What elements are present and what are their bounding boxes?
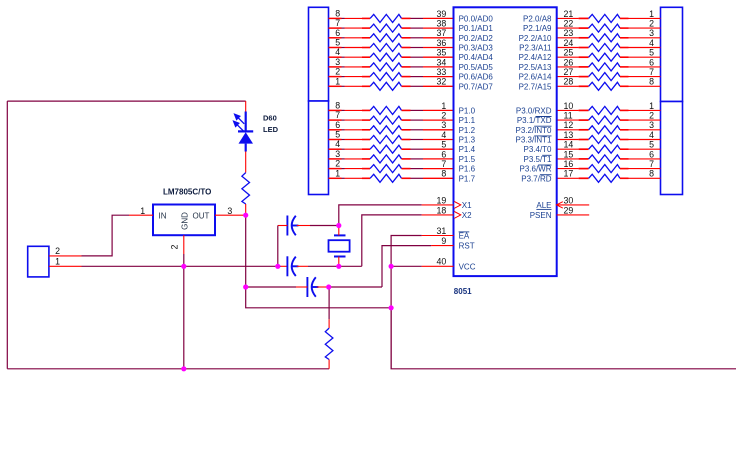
svg-text:16: 16 (564, 159, 574, 169)
svg-text:2: 2 (335, 159, 340, 169)
svg-text:3: 3 (441, 120, 446, 130)
wire 8051 pin 21 to resistor (P2.0 net) (557, 17, 579, 19)
svg-text:X1: X1 (462, 201, 472, 210)
junction node RST / C3 / reset resistor (326, 284, 331, 289)
wire connector pin 8 to resistor (P0.0 net) (329, 17, 342, 19)
resistor R P1.1 (370, 116, 401, 124)
junction node C1 ground junction (275, 264, 280, 269)
wire RST resistor column (328, 287, 330, 319)
svg-text:P2.5/A13: P2.5/A13 (519, 63, 552, 72)
wire resistor to 8051 pin 35 (402, 56, 411, 58)
svg-text:8: 8 (335, 8, 340, 18)
svg-text:15: 15 (564, 149, 574, 159)
wire 8051 pin 26 to resistor (P2.5 net) (557, 66, 579, 68)
junction node EA column x y308 wire (389, 305, 394, 310)
wire connector pin 6 to resistor (P1.2 net) (329, 129, 342, 131)
wire VCC pin stub (422, 265, 454, 267)
wire X2 pin stub (422, 214, 454, 216)
svg-text:8051: 8051 (454, 287, 472, 296)
wire GND column to bottom rail (183, 254, 185, 369)
wire resistor to right connector pin 3 (620, 129, 629, 131)
svg-text:VCC: VCC (459, 262, 476, 271)
resistor R P2.0 (589, 14, 620, 22)
wire connector pin 7 to resistor (P0.1 net) (329, 27, 342, 29)
svg-text:4: 4 (335, 139, 340, 149)
wire resistor to right connector pin 2 (620, 119, 629, 121)
wire 8051 pin 27 to resistor (P2.6 net) (557, 76, 579, 78)
overline over TXD (535, 116, 551, 118)
svg-text:RST: RST (459, 242, 475, 251)
svg-text:P3.2/INT0: P3.2/INT0 (515, 126, 552, 135)
svg-text:P2.4/A12: P2.4/A12 (519, 53, 552, 62)
resistor R P3.7 (589, 174, 620, 182)
wire resistor to right connector pin 4 (620, 47, 629, 49)
wire connector pin 4 to resistor (P0.4 net) (329, 56, 342, 58)
wire resistor to right connector pin 1 (620, 109, 629, 111)
svg-text:17: 17 (564, 169, 574, 179)
connector J5 (power input) (28, 246, 49, 277)
wire C2 right stub (297, 265, 308, 267)
svg-text:P3.3/INT1: P3.3/INT1 (515, 136, 552, 145)
wire regulator OUT pin to node (215, 214, 246, 216)
svg-text:2: 2 (441, 111, 446, 121)
wire C1 to crystal/X1 node (310, 225, 339, 227)
connector J2 (left middle, pins 8..1) (309, 101, 329, 195)
svg-text:P1.7: P1.7 (459, 174, 476, 183)
wire 8051 pin 23 to resistor (P2.2 net) (557, 37, 579, 39)
svg-text:24: 24 (564, 38, 574, 48)
wire ground net J5 to caps (82, 265, 282, 267)
svg-text:5: 5 (649, 140, 654, 150)
wire resistor to bottom rail (328, 360, 330, 369)
wire top rail to LED (245, 101, 247, 111)
svg-text:3: 3 (335, 149, 340, 159)
wire resistor to 8051 pin 4 (402, 139, 411, 141)
wire X2 net along ground row (308, 265, 362, 267)
underline under ALE / overline of PSEN group (536, 208, 551, 210)
svg-text:D60: D60 (263, 114, 277, 123)
wire 8051 pin 13 to resistor (P3.3 net) (557, 139, 579, 141)
wire resistor to right connector pin 5 (620, 148, 629, 150)
svg-text:P2.0/A8: P2.0/A8 (523, 14, 552, 23)
wire resistor to 8051 pin 8 (402, 177, 411, 179)
wire 8051 pin 16 to resistor (P3.6 net) (557, 168, 579, 170)
wire resistor to right connector pin 6 (620, 66, 629, 68)
wire RST net to corner (329, 286, 382, 288)
svg-text:P1.3: P1.3 (459, 136, 476, 145)
resistor R P1.0 (370, 106, 401, 114)
op-amp U1: 8051 microcontroller body (454, 7, 557, 276)
wire resistor to 8051 pin 33 (402, 76, 411, 78)
wire C1 left to ground wire (277, 226, 279, 267)
clock arrow pin X1 (454, 202, 461, 209)
svg-text:P1.0: P1.0 (459, 106, 476, 115)
wire 8051 pin 17 to resistor (P3.7 net) (557, 177, 579, 179)
wire resistor to 8051 pin 32 (402, 85, 411, 87)
junction node X2 / C2 / crystal bottom (336, 264, 341, 269)
wire resistor to right connector pin 8 (620, 85, 629, 87)
resistor R P3.4 (589, 145, 620, 153)
svg-text:3: 3 (335, 57, 340, 67)
resistor R P1.6 (370, 165, 401, 173)
wire connector pin 5 to resistor (P1.3 net) (329, 139, 342, 141)
svg-text:6: 6 (649, 57, 654, 67)
resistor R P1.3 (370, 136, 401, 144)
resistor R P2.3 (589, 44, 620, 52)
wire PSEN pin stub (557, 214, 590, 216)
svg-text:32: 32 (437, 77, 447, 87)
svg-text:GND: GND (180, 212, 189, 230)
svg-text:P1.2: P1.2 (459, 126, 476, 135)
svg-text:PSEN: PSEN (530, 211, 552, 220)
wire VCC column to y308 wire (246, 287, 391, 308)
wire C1 right stub (297, 225, 310, 227)
wire 8051 pin 10 to resistor (P3.0 net) (557, 109, 579, 111)
svg-text:21: 21 (564, 9, 574, 19)
resistor R P0.6 (370, 73, 401, 81)
svg-text:LM7805C/TO: LM7805C/TO (163, 188, 211, 197)
overline over T1 (542, 154, 551, 156)
resistor R P0.4 (370, 53, 401, 61)
junction node regulator OUT / LED / VCC column (243, 213, 248, 218)
svg-text:9: 9 (441, 236, 446, 246)
svg-text:1: 1 (649, 9, 654, 19)
wire RST net vertical and to pin (382, 246, 431, 287)
wire EA net vertical (391, 236, 422, 369)
resistor R P1.4 (370, 145, 401, 153)
wire 8051 pin 22 to resistor (P2.1 net) (557, 27, 579, 29)
svg-text:1: 1 (335, 168, 340, 178)
wire X1 pin stub (422, 204, 454, 206)
wire resistor to 8051 pin 34 (402, 66, 411, 68)
pin arrow ALE (557, 202, 563, 208)
svg-text:39: 39 (437, 9, 447, 19)
svg-text:34: 34 (437, 57, 447, 67)
wire resistor to 8051 pin 2 (402, 119, 411, 121)
svg-text:6: 6 (335, 120, 340, 130)
wire connector pin 4 to resistor (P1.4 net) (329, 148, 342, 150)
resistor R P3.3 (589, 136, 620, 144)
svg-text:7: 7 (649, 67, 654, 77)
svg-text:P2.1/A9: P2.1/A9 (523, 24, 552, 33)
svg-text:33: 33 (437, 67, 447, 77)
svg-text:P1.5: P1.5 (459, 155, 476, 164)
svg-text:8: 8 (649, 169, 654, 179)
resistor R P0.5 (370, 63, 401, 71)
resistor R P0.1 (370, 24, 401, 32)
wire connector pin 8 to resistor (P1.0 net) (329, 109, 342, 111)
wire VCC pin net (391, 265, 422, 267)
wire resistor to 8051 pin 3 (402, 129, 411, 131)
wire EA pin stub (422, 235, 454, 237)
wire 8051 pin 15 to resistor (P3.5 net) (557, 158, 579, 160)
LED light arrows (234, 114, 245, 131)
svg-text:P1.1: P1.1 (459, 116, 476, 125)
wire resistor to right connector pin 4 (620, 139, 629, 141)
wire connector pin 2 to resistor (P1.6 net) (329, 168, 342, 170)
resistor R P2.5 (589, 63, 620, 71)
wire 8051 pin 24 to resistor (P2.3 net) (557, 47, 579, 49)
svg-text:3: 3 (649, 120, 654, 130)
svg-text:P1.4: P1.4 (459, 145, 476, 154)
svg-text:25: 25 (564, 48, 574, 58)
wire connector pin 3 to resistor (P0.5 net) (329, 66, 342, 68)
svg-text:1: 1 (335, 76, 340, 86)
capacitor C3 (reset cap) (306, 277, 308, 297)
wire VCC column to C3 (246, 286, 296, 288)
overline over INT1 (534, 135, 551, 137)
svg-text:P3.0/RXD: P3.0/RXD (516, 106, 552, 115)
wire 8051 pin 14 to resistor (P3.4 net) (557, 148, 579, 150)
wire resistor to right connector pin 2 (620, 27, 629, 29)
svg-text:LED: LED (263, 125, 279, 134)
svg-text:31: 31 (437, 226, 447, 236)
svg-text:8: 8 (441, 169, 446, 179)
resistor R P2.4 (589, 53, 620, 61)
svg-text:P3.4/T0: P3.4/T0 (523, 145, 552, 154)
svg-text:P0.2/AD2: P0.2/AD2 (459, 34, 494, 43)
svg-text:P0.4/AD4: P0.4/AD4 (459, 53, 494, 62)
junction node EA column x VCC wire (389, 264, 394, 269)
resistor R P2.6 (589, 73, 620, 81)
svg-text:36: 36 (437, 38, 447, 48)
wire resistor to 8051 pin 37 (402, 37, 411, 39)
svg-text:14: 14 (564, 140, 574, 150)
wire resistor to 8051 pin 39 (402, 17, 411, 19)
svg-text:OUT: OUT (193, 211, 210, 220)
svg-text:2: 2 (170, 244, 180, 249)
svg-text:19: 19 (437, 195, 447, 205)
resistor R (LED series) (242, 173, 250, 204)
svg-text:10: 10 (564, 101, 574, 111)
svg-text:P0.3/AD3: P0.3/AD3 (459, 44, 494, 53)
svg-text:4: 4 (649, 130, 654, 140)
svg-text:1: 1 (140, 206, 145, 216)
resistor R P1.7 (370, 174, 401, 182)
svg-text:8: 8 (335, 100, 340, 110)
resistor R P3.6 (589, 165, 620, 173)
svg-text:X2: X2 (462, 211, 472, 220)
LED D60 (245, 112, 247, 132)
wire top rail (7, 100, 245, 102)
resistor R P0.2 (370, 34, 401, 42)
wire bottom rail left segment (7, 368, 329, 370)
svg-text:P2.6/A14: P2.6/A14 (519, 73, 552, 82)
wire ALE pin stub (557, 204, 590, 206)
resistor R P3.0 (589, 106, 620, 114)
wire connector pin 2 to resistor (P0.6 net) (329, 76, 342, 78)
resistor R P2.7 (589, 82, 620, 90)
svg-text:12: 12 (564, 120, 574, 130)
junction node X1 / C1 / crystal top (336, 223, 341, 228)
svg-text:IN: IN (159, 211, 167, 220)
wire regulator GND pin stub (183, 235, 185, 254)
resistor R P3.2 (589, 126, 620, 134)
wire J5 pin 2 stub (49, 255, 82, 257)
svg-text:P3.6/WR: P3.6/WR (519, 165, 551, 174)
svg-text:P0.1/AD1: P0.1/AD1 (459, 24, 494, 33)
connector J3 (right top, pins 1..8) (661, 7, 683, 101)
capacitor C1 (X1 load cap) (286, 216, 288, 236)
svg-text:11: 11 (564, 111, 573, 121)
svg-text:P2.3/A11: P2.3/A11 (519, 44, 552, 53)
svg-text:26: 26 (564, 57, 574, 67)
resistor R P0.0 (370, 14, 401, 22)
wire bottom rail right segment (391, 308, 736, 369)
svg-text:5: 5 (441, 140, 446, 150)
wire connector pin 7 to resistor (P1.1 net) (329, 119, 342, 121)
wire J5 pin 1 stub (49, 265, 82, 267)
svg-text:EA: EA (459, 232, 470, 241)
svg-text:5: 5 (335, 38, 340, 48)
svg-text:4: 4 (335, 47, 340, 57)
svg-text:4: 4 (649, 38, 654, 48)
wire connector pin 5 to resistor (P0.3 net) (329, 47, 342, 49)
svg-text:18: 18 (437, 205, 447, 215)
svg-text:30: 30 (564, 195, 574, 205)
wire connector pin 1 to resistor (P1.7 net) (329, 177, 342, 179)
svg-text:6: 6 (649, 149, 654, 159)
wire LED to resistor (245, 152, 247, 173)
wire crystal bottom stub (338, 257, 340, 267)
wire connector pin 3 to resistor (P1.5 net) (329, 158, 342, 160)
svg-text:6: 6 (335, 28, 340, 38)
svg-text:4: 4 (441, 130, 446, 140)
wire resistor to right connector pin 3 (620, 37, 629, 39)
svg-text:13: 13 (564, 130, 574, 140)
svg-text:ALE: ALE (536, 201, 551, 210)
clock arrow pin X2 (454, 212, 461, 219)
svg-text:P0.5/AD5: P0.5/AD5 (459, 63, 494, 72)
wire RST pin stub (431, 245, 453, 247)
svg-text:22: 22 (564, 19, 574, 29)
wire resistor to right connector pin 7 (620, 168, 629, 170)
svg-text:28: 28 (564, 77, 574, 87)
svg-text:P3.5/T1: P3.5/T1 (523, 155, 552, 164)
svg-text:40: 40 (437, 257, 447, 267)
wire 8051 pin 28 to resistor (P2.7 net) (557, 85, 579, 87)
wire crystal top stub (338, 226, 340, 236)
resistor R P2.1 (589, 24, 620, 32)
resistor R P0.7 (370, 82, 401, 90)
resistor R P1.5 (370, 155, 401, 163)
wire resistor to 8051 pin 36 (402, 47, 411, 49)
svg-text:7: 7 (335, 18, 340, 28)
svg-text:1: 1 (649, 101, 654, 111)
wire resistor to node (245, 204, 247, 215)
svg-text:P1.6: P1.6 (459, 165, 476, 174)
resistor R P2.2 (589, 34, 620, 42)
svg-text:P2.2/A10: P2.2/A10 (519, 34, 552, 43)
junction node GND column x bottom rail (181, 366, 186, 371)
wire node down VCC column (245, 215, 247, 287)
svg-text:7: 7 (441, 159, 446, 169)
resistor R (reset pulldown) (325, 328, 333, 359)
resistor R P0.3 (370, 44, 401, 52)
wire X1 net vertical and to pin (339, 205, 422, 226)
wire C3 right stub (317, 286, 329, 288)
resistor R P3.5 (589, 155, 620, 163)
wire resistor to 8051 pin 5 (402, 148, 411, 150)
wire resistor to 8051 pin 6 (402, 158, 411, 160)
wire resistor to right connector pin 5 (620, 56, 629, 58)
svg-text:3: 3 (227, 206, 232, 216)
wire resistor to 8051 pin 38 (402, 27, 411, 29)
svg-text:5: 5 (649, 48, 654, 58)
svg-text:P2.7/A15: P2.7/A15 (519, 82, 552, 91)
junction node GND column x ground wire (181, 264, 186, 269)
wire 8051 pin 25 to resistor (P2.4 net) (557, 56, 579, 58)
wire IN to J5 pin 2 (82, 215, 130, 256)
wire C1 left stub (278, 225, 288, 227)
overline over INT0 (534, 125, 551, 127)
wire regulator IN pin stub (129, 214, 153, 216)
svg-text:29: 29 (564, 205, 574, 215)
overline over RD (540, 174, 552, 176)
svg-text:23: 23 (564, 28, 574, 38)
svg-text:1: 1 (441, 101, 446, 111)
wire resistor to right connector pin 8 (620, 177, 629, 179)
crystal Y1 (329, 240, 350, 252)
wire connector pin 1 to resistor (P0.7 net) (329, 85, 342, 87)
svg-text:1: 1 (55, 257, 60, 267)
svg-text:8: 8 (649, 77, 654, 87)
svg-text:7: 7 (335, 110, 340, 120)
wire resistor to right connector pin 7 (620, 76, 629, 78)
svg-text:5: 5 (335, 130, 340, 140)
wire resistor to right connector pin 6 (620, 158, 629, 160)
capacitor C2 (X2 load cap) (286, 256, 288, 276)
svg-text:2: 2 (649, 19, 654, 29)
svg-text:P3.1/TXD: P3.1/TXD (517, 116, 552, 125)
svg-text:3: 3 (649, 28, 654, 38)
junction node VCC column / C3 wire (243, 284, 248, 289)
wire 8051 pin 12 to resistor (P3.2 net) (557, 129, 579, 131)
svg-text:38: 38 (437, 19, 447, 29)
wire X2 net vertical and to pin (362, 215, 422, 266)
resistor R P3.1 (589, 116, 620, 124)
wire resistor to right connector pin 1 (620, 17, 629, 19)
svg-text:2: 2 (335, 67, 340, 77)
wire connector pin 6 to resistor (P0.2 net) (329, 37, 342, 39)
connector J4 (right lower, pins 1..8) (661, 102, 683, 195)
svg-text:2: 2 (649, 111, 654, 121)
wire resistor to 8051 pin 1 (402, 109, 411, 111)
wire left rail (6, 101, 8, 369)
svg-text:7: 7 (649, 159, 654, 169)
overline over WR (538, 164, 551, 166)
svg-text:35: 35 (437, 48, 447, 58)
svg-text:6: 6 (441, 149, 446, 159)
svg-text:P0.6/AD6: P0.6/AD6 (459, 73, 494, 82)
connector J1 (left top, pins 8..1) (309, 7, 329, 101)
svg-text:2: 2 (55, 246, 60, 256)
resistor R P1.2 (370, 126, 401, 134)
svg-text:P0.7/AD7: P0.7/AD7 (459, 82, 494, 91)
svg-text:37: 37 (437, 28, 447, 38)
svg-text:P3.7/RD: P3.7/RD (521, 174, 551, 183)
wire resistor to 8051 pin 7 (402, 168, 411, 170)
svg-text:P0.0/AD0: P0.0/AD0 (459, 14, 494, 23)
voltage regulator U2 LM7805C/TO (153, 205, 215, 236)
wire 8051 pin 11 to resistor (P3.1 net) (557, 119, 579, 121)
svg-text:27: 27 (564, 67, 574, 77)
